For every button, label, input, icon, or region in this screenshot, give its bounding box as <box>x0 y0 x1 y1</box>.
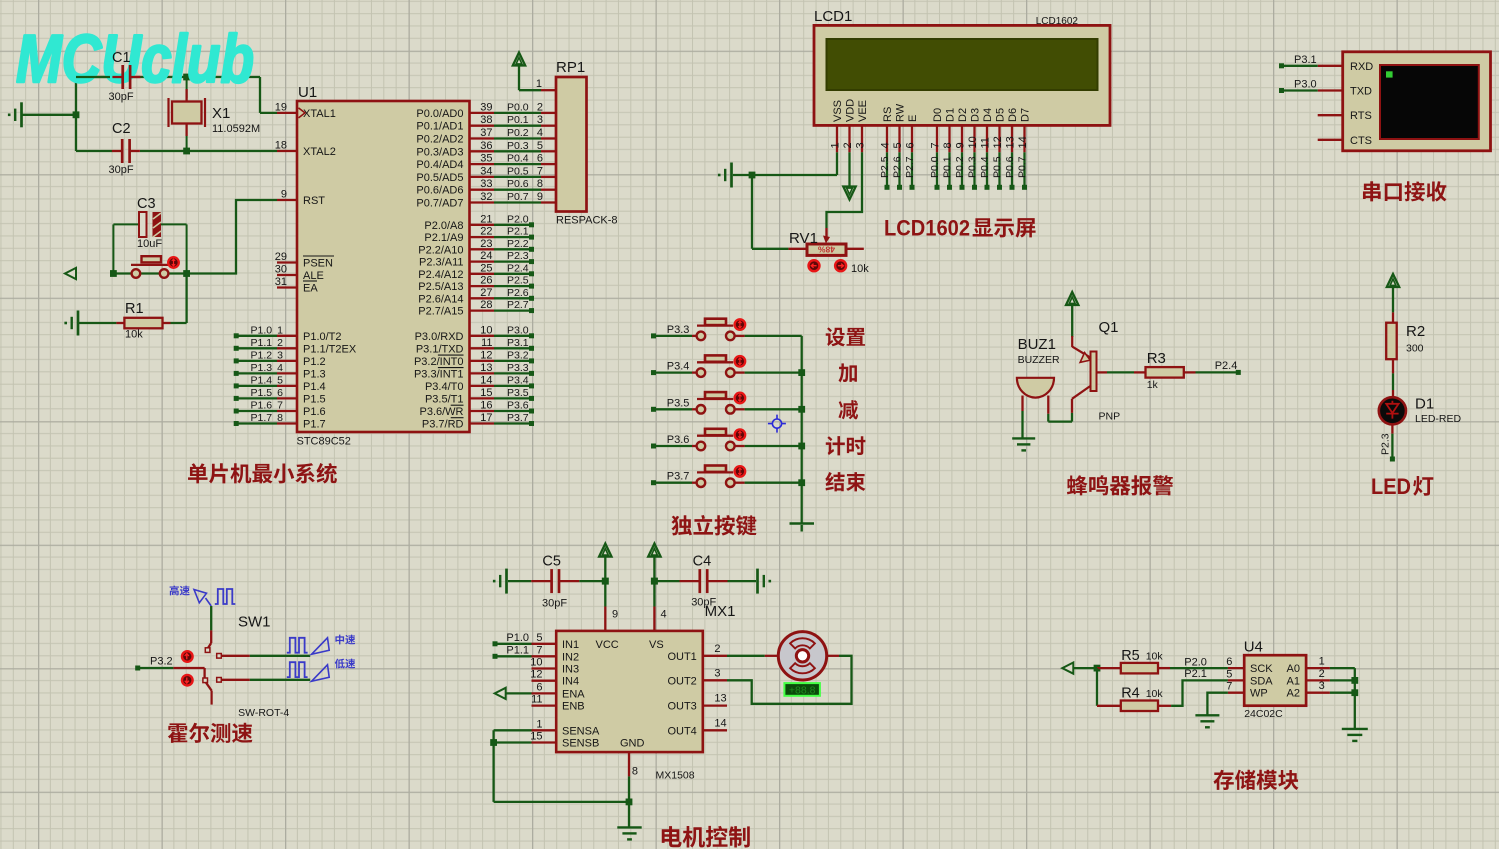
svg-text:SW1: SW1 <box>238 614 271 631</box>
svg-text:P3.4: P3.4 <box>507 374 529 386</box>
svg-text:P3.6: P3.6 <box>507 400 529 412</box>
svg-text:A0: A0 <box>1287 663 1300 675</box>
svg-text:D6: D6 <box>1007 108 1019 122</box>
svg-text:A2: A2 <box>1287 688 1300 700</box>
svg-text:12: 12 <box>992 136 1004 148</box>
svg-text:SCK: SCK <box>1250 663 1273 675</box>
svg-text:XTAL1: XTAL1 <box>303 108 336 120</box>
svg-text:RESPACK-8: RESPACK-8 <box>556 215 618 227</box>
svg-text:BUZZER: BUZZER <box>1018 354 1060 366</box>
svg-text:CTS: CTS <box>1350 135 1372 147</box>
svg-text:R3: R3 <box>1147 350 1166 367</box>
svg-text:36: 36 <box>480 140 492 152</box>
svg-text:1k: 1k <box>1147 379 1159 391</box>
svg-text:P2.1: P2.1 <box>1184 668 1207 680</box>
svg-text:P1.5: P1.5 <box>303 393 326 405</box>
svg-text:3: 3 <box>1319 680 1325 692</box>
svg-text:LED: LED <box>1371 474 1411 499</box>
svg-text:5: 5 <box>277 374 283 386</box>
svg-text:U1: U1 <box>298 84 317 101</box>
svg-text:29: 29 <box>275 251 287 263</box>
svg-text:1: 1 <box>536 78 542 90</box>
svg-text:10k: 10k <box>1146 651 1164 663</box>
svg-text:IN4: IN4 <box>562 676 579 688</box>
svg-text:D1: D1 <box>1415 396 1434 413</box>
svg-text:1: 1 <box>830 142 842 148</box>
svg-text:P3.5: P3.5 <box>507 387 529 399</box>
svg-text:P1.1: P1.1 <box>506 644 529 656</box>
svg-text:C1: C1 <box>112 50 131 66</box>
svg-text:P1.2: P1.2 <box>303 356 326 368</box>
svg-text:P3.7: P3.7 <box>507 412 529 424</box>
svg-text:5: 5 <box>537 140 543 152</box>
svg-text:P3.0: P3.0 <box>1294 79 1317 91</box>
svg-text:P3.5/T1: P3.5/T1 <box>425 393 464 405</box>
svg-text:OUT2: OUT2 <box>667 675 696 687</box>
svg-text:6: 6 <box>1226 656 1232 668</box>
svg-text:OUT1: OUT1 <box>667 651 696 663</box>
svg-text:P0.7: P0.7 <box>1017 156 1029 178</box>
svg-text:10k: 10k <box>851 263 869 275</box>
svg-text:RXD: RXD <box>1350 61 1373 73</box>
svg-text:P3.0/RXD: P3.0/RXD <box>415 331 464 343</box>
svg-text:C4: C4 <box>693 554 712 570</box>
svg-text:P0.4: P0.4 <box>507 153 529 165</box>
svg-text:5: 5 <box>1226 668 1232 680</box>
svg-text:R4: R4 <box>1121 686 1140 702</box>
svg-text:48%: 48% <box>818 244 835 254</box>
svg-text:P0.3: P0.3 <box>967 156 979 178</box>
svg-text:7: 7 <box>1226 681 1232 693</box>
svg-text:9: 9 <box>612 609 618 621</box>
svg-text:P2.4/A12: P2.4/A12 <box>418 269 463 281</box>
svg-text:23: 23 <box>480 238 492 250</box>
svg-text:24C02C: 24C02C <box>1244 708 1283 720</box>
svg-text:P1.6: P1.6 <box>251 400 273 412</box>
svg-text:9: 9 <box>955 142 967 148</box>
svg-text:P0.2/AD2: P0.2/AD2 <box>416 134 463 146</box>
svg-text:10: 10 <box>480 324 492 336</box>
svg-text:P0.1: P0.1 <box>942 156 954 178</box>
svg-text:4: 4 <box>880 142 892 148</box>
svg-text:8: 8 <box>537 178 543 190</box>
svg-text:10: 10 <box>530 657 542 669</box>
svg-text:P0.3: P0.3 <box>507 140 529 152</box>
svg-text:VEE: VEE <box>857 100 869 122</box>
svg-text:11: 11 <box>980 137 992 148</box>
svg-text:2: 2 <box>537 101 543 113</box>
svg-text:5: 5 <box>536 632 542 644</box>
svg-text:P2.7: P2.7 <box>904 156 916 178</box>
svg-text:16: 16 <box>480 400 492 412</box>
svg-text:RTS: RTS <box>1350 110 1372 122</box>
svg-text:P1.4: P1.4 <box>251 374 273 386</box>
svg-text:P0.6: P0.6 <box>507 178 529 190</box>
svg-text:P3.6: P3.6 <box>667 434 690 446</box>
svg-text:30: 30 <box>275 264 287 276</box>
svg-text:P2.0: P2.0 <box>507 213 529 225</box>
svg-text:P0.5: P0.5 <box>992 156 1004 178</box>
svg-text:4: 4 <box>277 362 283 374</box>
svg-text:P0.6/AD6: P0.6/AD6 <box>416 185 463 197</box>
svg-text:XTAL2: XTAL2 <box>303 146 336 158</box>
svg-text:VDD: VDD <box>845 99 857 122</box>
svg-text:10uF: 10uF <box>137 238 162 250</box>
svg-text:R2: R2 <box>1406 323 1425 340</box>
svg-text:RS: RS <box>882 107 894 122</box>
svg-text:P1.7: P1.7 <box>251 412 273 424</box>
svg-text:5: 5 <box>892 142 904 148</box>
svg-text:7: 7 <box>930 142 942 148</box>
svg-text:SENSB: SENSB <box>562 738 599 750</box>
svg-text:P3.4/T0: P3.4/T0 <box>425 381 464 393</box>
svg-text:25: 25 <box>480 262 492 274</box>
svg-text:P2.3: P2.3 <box>1380 433 1392 455</box>
svg-text:10k: 10k <box>1146 688 1164 700</box>
svg-text:D0: D0 <box>932 108 944 122</box>
svg-text:22: 22 <box>480 226 492 238</box>
svg-text:3: 3 <box>537 114 543 126</box>
svg-text:11: 11 <box>481 337 492 349</box>
svg-text:VS: VS <box>649 639 664 651</box>
svg-text:P3.2: P3.2 <box>150 656 173 668</box>
svg-text:P2.5/A13: P2.5/A13 <box>418 281 463 293</box>
svg-text:P3.4: P3.4 <box>667 361 690 373</box>
svg-text:17: 17 <box>480 412 492 424</box>
svg-text:3: 3 <box>277 349 283 361</box>
svg-text:P3.3/INT1: P3.3/INT1 <box>414 368 464 380</box>
svg-text:SENSA: SENSA <box>562 725 600 737</box>
svg-text:P1.5: P1.5 <box>251 387 273 399</box>
svg-text:BUZ1: BUZ1 <box>1018 336 1056 353</box>
svg-text:P3.2/INT0: P3.2/INT0 <box>414 356 464 368</box>
svg-text:P3.7/RD: P3.7/RD <box>422 419 464 431</box>
svg-text:2: 2 <box>842 142 854 148</box>
svg-text:P0.1: P0.1 <box>507 114 529 126</box>
svg-text:LED-RED: LED-RED <box>1415 413 1462 425</box>
svg-text:LCD1602: LCD1602 <box>1036 16 1079 27</box>
svg-text:R1: R1 <box>125 301 144 317</box>
svg-text:32: 32 <box>480 191 492 203</box>
svg-text:D7: D7 <box>1020 108 1032 122</box>
svg-text:D3: D3 <box>970 108 982 122</box>
svg-text:P3.7: P3.7 <box>667 471 690 483</box>
svg-text:15: 15 <box>530 731 542 743</box>
svg-text:P1.0/T2: P1.0/T2 <box>303 331 342 343</box>
svg-text:P0.2: P0.2 <box>507 127 529 139</box>
svg-text:8: 8 <box>632 766 638 778</box>
svg-text:P0.0: P0.0 <box>929 156 941 178</box>
svg-text:PSEN: PSEN <box>303 258 333 270</box>
svg-text:2: 2 <box>1319 668 1325 680</box>
svg-text:12: 12 <box>530 669 542 681</box>
svg-text:P0.7/AD7: P0.7/AD7 <box>416 198 463 210</box>
svg-text:10: 10 <box>967 136 979 148</box>
svg-text:P2.0/A8: P2.0/A8 <box>424 220 463 232</box>
svg-text:SDA: SDA <box>1250 675 1273 687</box>
svg-text:ALE: ALE <box>303 270 324 282</box>
svg-text:P3.5: P3.5 <box>667 397 690 409</box>
svg-text:MX1: MX1 <box>705 603 736 620</box>
svg-text:11.0592M: 11.0592M <box>212 123 260 135</box>
svg-text:X1: X1 <box>212 105 230 122</box>
svg-text:300: 300 <box>1406 343 1424 355</box>
svg-text:P0.4: P0.4 <box>979 156 991 178</box>
svg-text:13: 13 <box>714 693 726 705</box>
svg-text:P1.0: P1.0 <box>506 632 529 644</box>
svg-text:11: 11 <box>531 694 542 706</box>
svg-text:P1.3: P1.3 <box>251 362 273 374</box>
svg-text:IN1: IN1 <box>562 639 579 651</box>
svg-text:15: 15 <box>480 387 492 399</box>
svg-text:P3.1: P3.1 <box>1294 54 1317 66</box>
svg-text:P3.3: P3.3 <box>507 362 529 374</box>
svg-text:P0.4/AD4: P0.4/AD4 <box>416 159 463 171</box>
svg-text:P2.6/A14: P2.6/A14 <box>418 293 463 305</box>
svg-text:TXD: TXD <box>1350 86 1372 98</box>
svg-text:7: 7 <box>537 165 543 177</box>
svg-text:D2: D2 <box>957 108 969 122</box>
svg-text:9: 9 <box>537 191 543 203</box>
svg-text:P3.0: P3.0 <box>507 324 529 336</box>
svg-text:MCUclub: MCUclub <box>16 21 254 97</box>
svg-text:E: E <box>907 115 919 122</box>
svg-text:ENB: ENB <box>562 701 585 713</box>
svg-text:P2.0: P2.0 <box>1184 656 1207 668</box>
svg-text:STC89C52: STC89C52 <box>297 436 351 448</box>
svg-text:35: 35 <box>480 153 492 165</box>
svg-text:RV1: RV1 <box>789 230 818 247</box>
svg-text:2: 2 <box>714 643 720 655</box>
svg-text:38: 38 <box>480 114 492 126</box>
svg-text:P2.7/A15: P2.7/A15 <box>418 306 463 318</box>
svg-text:P0.0: P0.0 <box>507 101 529 113</box>
svg-text:30pF: 30pF <box>109 91 134 103</box>
svg-text:P3.1/TXD: P3.1/TXD <box>416 343 464 355</box>
svg-text:37: 37 <box>480 127 492 139</box>
svg-text:12: 12 <box>480 349 492 361</box>
svg-text:30pF: 30pF <box>109 164 134 176</box>
svg-text:P1.3: P1.3 <box>303 368 326 380</box>
svg-text:U4: U4 <box>1244 639 1263 656</box>
svg-text:P0.5: P0.5 <box>507 165 529 177</box>
svg-text:14: 14 <box>1017 136 1029 148</box>
svg-text:P2.4: P2.4 <box>1215 360 1238 372</box>
svg-text:C2: C2 <box>112 121 131 137</box>
svg-text:Q1: Q1 <box>1099 319 1119 336</box>
svg-text:3: 3 <box>855 142 867 148</box>
svg-text:IN3: IN3 <box>562 664 579 676</box>
svg-text:P0.0/AD0: P0.0/AD0 <box>416 108 463 120</box>
svg-text:P1.7: P1.7 <box>303 419 326 431</box>
svg-text:18: 18 <box>275 140 287 152</box>
svg-text:P0.6: P0.6 <box>1004 156 1016 178</box>
svg-text:A1: A1 <box>1287 675 1300 687</box>
svg-text:P0.5/AD5: P0.5/AD5 <box>416 172 463 184</box>
svg-text:OUT3: OUT3 <box>667 701 696 713</box>
svg-text:2: 2 <box>277 337 283 349</box>
svg-text:7: 7 <box>536 644 542 656</box>
svg-text:WP: WP <box>1250 688 1268 700</box>
svg-text:P2.5: P2.5 <box>879 156 891 178</box>
svg-text:P2.3/A11: P2.3/A11 <box>419 257 463 269</box>
svg-text:P0.1/AD1: P0.1/AD1 <box>416 121 463 133</box>
svg-text:ENA: ENA <box>562 688 585 700</box>
svg-text:24: 24 <box>480 250 492 262</box>
svg-text:MX1508: MX1508 <box>656 770 695 782</box>
svg-text:C5: C5 <box>542 554 561 570</box>
svg-text:OUT4: OUT4 <box>667 725 696 737</box>
svg-text:P2.4: P2.4 <box>507 262 529 274</box>
svg-text:8: 8 <box>277 412 283 424</box>
svg-text:P2.6: P2.6 <box>892 156 904 178</box>
svg-text:26: 26 <box>480 275 492 287</box>
svg-text:28: 28 <box>480 299 492 311</box>
svg-text:30pF: 30pF <box>542 598 567 610</box>
svg-text:13: 13 <box>480 362 492 374</box>
svg-text:P2.3: P2.3 <box>507 250 529 262</box>
svg-text:6: 6 <box>905 142 917 148</box>
svg-text:34: 34 <box>480 165 492 177</box>
svg-text:10k: 10k <box>125 329 143 341</box>
svg-text:P2.2: P2.2 <box>507 238 529 250</box>
svg-text:P1.6: P1.6 <box>303 406 326 418</box>
svg-text:C3: C3 <box>137 196 156 212</box>
svg-text:19: 19 <box>275 101 287 113</box>
svg-text:27: 27 <box>480 287 492 299</box>
svg-text:P3.2: P3.2 <box>507 349 529 361</box>
svg-text:1: 1 <box>277 324 283 336</box>
svg-text:P3.3: P3.3 <box>667 324 690 336</box>
svg-text:P2.7: P2.7 <box>507 299 529 311</box>
svg-text:LCD1602: LCD1602 <box>884 216 970 241</box>
svg-text:14: 14 <box>480 374 492 386</box>
svg-text:8: 8 <box>942 142 954 148</box>
svg-text:1: 1 <box>1319 656 1325 668</box>
svg-text:VCC: VCC <box>596 639 619 651</box>
svg-text:LCD1: LCD1 <box>814 8 852 25</box>
svg-text:P3.6/WR: P3.6/WR <box>419 406 463 418</box>
svg-text:P1.2: P1.2 <box>251 349 273 361</box>
svg-text:33: 33 <box>480 178 492 190</box>
svg-text:14: 14 <box>714 717 726 729</box>
svg-text:SW-ROT-4: SW-ROT-4 <box>238 707 289 719</box>
svg-text:P1.1/T2EX: P1.1/T2EX <box>303 343 357 355</box>
svg-text:R5: R5 <box>1121 648 1140 664</box>
svg-text:21: 21 <box>480 213 492 225</box>
svg-text:P0.2: P0.2 <box>954 156 966 178</box>
svg-text:9: 9 <box>281 189 287 201</box>
svg-text:P0.3/AD3: P0.3/AD3 <box>416 146 463 158</box>
svg-text:39: 39 <box>480 101 492 113</box>
svg-text:P0.7: P0.7 <box>507 191 529 203</box>
svg-text:P2.5: P2.5 <box>507 275 529 287</box>
svg-text:4: 4 <box>661 609 667 621</box>
svg-text:VSS: VSS <box>832 100 844 122</box>
svg-text:P1.1: P1.1 <box>251 337 273 349</box>
svg-text:RST: RST <box>303 195 325 207</box>
svg-text:P1.4: P1.4 <box>303 381 326 393</box>
svg-text:P2.2/A10: P2.2/A10 <box>418 244 463 256</box>
svg-text:IN2: IN2 <box>562 651 579 663</box>
svg-text:P2.1/A9: P2.1/A9 <box>424 232 463 244</box>
svg-text:P3.1: P3.1 <box>507 337 529 349</box>
svg-text:1: 1 <box>536 718 542 730</box>
svg-text:3: 3 <box>714 667 720 679</box>
svg-text:D4: D4 <box>982 108 994 122</box>
svg-text:6: 6 <box>537 153 543 165</box>
svg-text:P2.1: P2.1 <box>507 226 529 238</box>
svg-text:4: 4 <box>537 127 543 139</box>
svg-text:13: 13 <box>1005 136 1017 148</box>
svg-text:7: 7 <box>277 400 283 412</box>
svg-text:P1.0: P1.0 <box>251 324 273 336</box>
svg-text:RW: RW <box>895 103 907 122</box>
svg-text:P2.6: P2.6 <box>507 287 529 299</box>
svg-text:EA: EA <box>303 283 318 295</box>
svg-text:6: 6 <box>277 387 283 399</box>
svg-text:GND: GND <box>620 738 645 750</box>
svg-text:6: 6 <box>536 681 542 693</box>
svg-text:D1: D1 <box>945 108 957 122</box>
svg-text:31: 31 <box>275 276 287 288</box>
svg-text:+88.8: +88.8 <box>789 684 816 696</box>
svg-text:PNP: PNP <box>1099 411 1121 423</box>
svg-text:RP1: RP1 <box>556 59 585 76</box>
svg-text:D5: D5 <box>995 108 1007 122</box>
